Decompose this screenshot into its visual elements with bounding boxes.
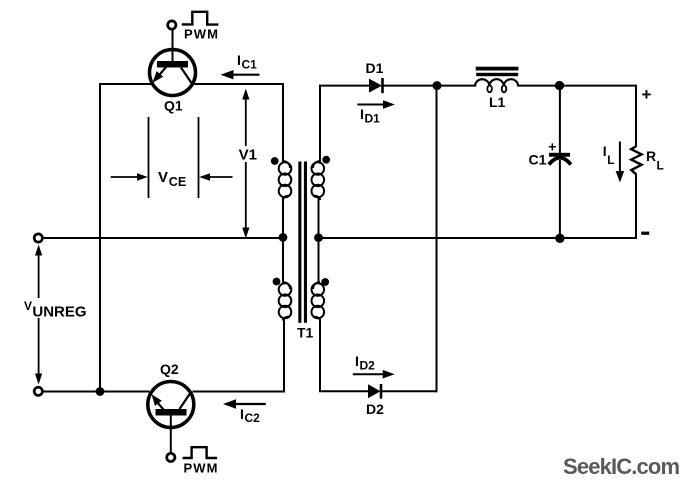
terminal PWM input Q2 [167, 453, 175, 461]
svg-text:V: V [24, 299, 32, 313]
wire bottom rail terminal to Q2 emitter [43, 391, 149, 393]
wire center tap to left terminal [43, 237, 284, 239]
node junction D1 cathode rail [433, 81, 442, 90]
current arrow ID1 [357, 100, 395, 109]
wire secondary center tap to lower winding [318, 238, 320, 282]
PWM pulse symbol top [182, 12, 219, 25]
svg-text:D1: D1 [366, 60, 384, 76]
svg-text:L1: L1 [489, 94, 506, 110]
svg-text:D2: D2 [360, 359, 376, 373]
svg-text:I: I [360, 106, 364, 122]
svg-text:SeekIC.com: SeekIC.com [563, 454, 680, 479]
PWM pulse symbol bottom [183, 447, 218, 458]
svg-text:R: R [646, 148, 656, 164]
svg-text:I: I [240, 406, 244, 422]
svg-text:C1: C1 [242, 58, 258, 72]
wire D2 cathode to vertical riser [382, 390, 437, 392]
svg-text:C1: C1 [529, 152, 547, 168]
voltage arrow Vunreg [35, 245, 42, 385]
node junction L1 output [555, 81, 564, 90]
svg-text:I: I [355, 353, 359, 369]
svg-text:+: + [642, 85, 652, 104]
label V1 [236, 146, 261, 164]
label Vunreg [23, 298, 87, 321]
resistor RL [631, 146, 641, 174]
phase dot secondary lower [321, 278, 329, 286]
svg-text:I: I [237, 52, 241, 68]
wire secondary lower winding down to D2 anode [320, 320, 368, 391]
wire L1 output to plus corner [518, 85, 636, 87]
terminal Vunreg top [34, 234, 42, 242]
node junction C1 bottom [555, 234, 564, 243]
voltage ticks and arrows VCE [111, 117, 233, 198]
wire center rail right [319, 237, 637, 239]
svg-text:V1: V1 [239, 147, 257, 164]
node junction primary center tap [279, 233, 288, 242]
wire Q1 collector to primary top [193, 83, 283, 85]
wire D1 cathode to right corner [383, 85, 475, 87]
svg-text:D2: D2 [366, 401, 384, 417]
svg-text:CE: CE [169, 175, 186, 189]
svg-text:V: V [158, 169, 168, 186]
current arrow ID2 [353, 370, 395, 379]
transformer core bars [298, 162, 301, 323]
current arrow IL [616, 142, 625, 183]
svg-text:UNREG: UNREG [32, 304, 86, 321]
svg-text:T1: T1 [297, 325, 314, 341]
wire secondary below upper winding to center tap [318, 199, 320, 238]
node junction emitter rail bottom [96, 387, 105, 396]
wire primary lower winding to bottom corner [194, 320, 285, 392]
capacitor C1 [549, 153, 571, 165]
wire primary below upper winding to center tap [282, 199, 284, 238]
current arrow IC2 [223, 399, 266, 408]
wire D2 riser up to top rail [436, 86, 438, 392]
inductor L1 [475, 79, 518, 92]
svg-text:Q1: Q1 [164, 98, 183, 114]
transistor Q1 [150, 30, 196, 96]
diode D2 [368, 384, 381, 399]
label minus output [641, 232, 649, 235]
wire Q2 base lead [170, 415, 172, 453]
phase dot secondary upper [322, 156, 330, 164]
wire primary center tap down to lower winding [282, 238, 284, 283]
svg-text:D1: D1 [365, 112, 381, 126]
wire secondary top rail to D1 anode [320, 85, 369, 87]
diode D1 [369, 78, 383, 93]
svg-text:C2: C2 [245, 411, 261, 425]
primary upper winding [283, 161, 290, 168]
svg-text:Q2: Q2 [160, 361, 179, 377]
wire Q1 emitter to left vertical [100, 83, 150, 85]
inductor L1 core bars [476, 67, 519, 71]
svg-text:PWM: PWM [184, 460, 219, 475]
current arrow IC1 [221, 70, 260, 79]
secondary lower winding [313, 282, 320, 289]
transformer T1 [279, 161, 324, 321]
svg-text:PWM: PWM [184, 27, 219, 42]
phase dot primary lower [273, 278, 281, 286]
terminal PWM input Q1 [168, 21, 176, 29]
primary lower winding [283, 282, 290, 289]
svg-text:L: L [657, 159, 664, 173]
svg-text:I: I [603, 143, 607, 159]
wire left vertical (emitter rail) [99, 84, 101, 392]
wire secondary top vertical [319, 86, 321, 161]
transistor Q2 [148, 382, 194, 428]
wire right output vertical lower [635, 175, 637, 239]
svg-text:L: L [607, 153, 614, 167]
wire primary top vertical [282, 84, 284, 161]
node junction secondary center tap [314, 233, 323, 242]
wire C1 top branch [559, 86, 561, 153]
svg-text:+: + [548, 139, 556, 155]
wire right output vertical upper [635, 86, 637, 146]
voltage arrow V1 [242, 89, 249, 239]
secondary upper winding [313, 161, 320, 168]
wire C1 bottom branch [559, 161, 561, 238]
terminal Vunreg bottom [34, 387, 42, 395]
phase dot primary upper [271, 157, 279, 165]
